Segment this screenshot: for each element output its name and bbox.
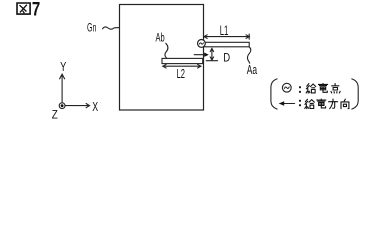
svg-text:Z: Z — [52, 109, 58, 120]
svg-text:L1: L1 — [220, 24, 229, 39]
svg-text:D: D — [223, 52, 230, 65]
svg-text:Aa: Aa — [247, 63, 258, 77]
svg-text:X: X — [92, 100, 98, 114]
svg-text:7: 7 — [32, 0, 40, 20]
svg-text:Y: Y — [60, 61, 67, 75]
svg-text:Gn: Gn — [87, 22, 96, 35]
svg-text:L2: L2 — [177, 68, 186, 81]
svg-text:Ab: Ab — [156, 32, 165, 45]
